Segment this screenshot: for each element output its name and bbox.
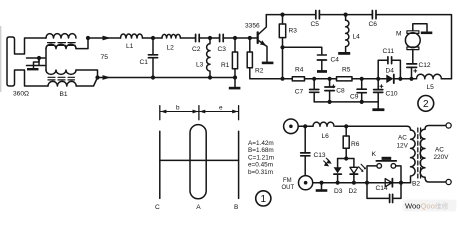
resistor R4 [292,77,304,81]
capacitor C10 + electrolytic [377,79,379,109]
node R6 top [344,124,348,128]
svg-text:12V: 12V [397,142,409,149]
node D4 cathode [398,77,402,81]
wire L5 to right edge [441,78,451,80]
node antenna feed [37,56,41,60]
edge smear [0,26,1,92]
FM OUT upper terminal [284,119,299,134]
svg-text:b=0.31m: b=0.31m [248,169,273,176]
resistor R3 [282,15,284,24]
wire C3 to base [224,37,257,39]
svg-text:R2: R2 [255,68,264,75]
transformer B1 winding W3 (bottom) [48,81,76,86]
svg-text:C=1.21m: C=1.21m [248,154,274,161]
inductor L4 [346,15,349,52]
wire R4 to R5 [305,78,337,80]
LED D3 [337,159,339,168]
wire W3 to bottom node [76,78,97,87]
svg-text:e=0.45m: e=0.45m [248,162,273,169]
dimension line b [160,111,198,113]
capacitor C8 + [329,79,331,102]
antenna feed bridge [27,58,46,66]
wire bottom rail [98,77,236,79]
motor M [405,33,420,48]
wire to L6 [298,125,313,127]
node ground fm [319,181,323,185]
inductor L5 [417,74,442,79]
wire B1 loop top to top node [76,38,88,49]
wire rail to R4 [283,78,293,80]
resistor R1 [234,38,236,52]
capacitor C7 [313,79,315,102]
ground L4 [338,52,350,55]
inductor L6 [313,122,334,126]
svg-text:WooQoo维修: WooQoo维修 [405,201,449,210]
svg-text:R6: R6 [351,141,360,148]
svg-text:B=1.68m: B=1.68m [248,147,274,154]
transformer B1 middle loop top row [46,44,76,48]
node C7 [312,77,316,81]
svg-text:K: K [372,151,377,158]
inductor L2 [162,34,180,38]
bottom wire [313,182,411,184]
svg-text:C9: C9 [350,93,359,100]
node C8 [328,77,332,81]
svg-text:220V: 220V [434,154,450,161]
capacitor C6 [372,11,376,19]
wire top rail to L1 [88,37,121,39]
capacitor C14 loop [367,183,401,199]
capacitor C1 [152,38,154,78]
node bottom 75ohm [95,75,99,79]
top supply rail [266,15,451,79]
svg-text:D3: D3 [334,188,343,195]
inductor L3 [207,38,210,78]
arrow bottom rail [103,75,111,80]
resistor R6 [345,126,347,136]
svg-text:A: A [196,204,201,211]
ground antenna feed [34,58,40,68]
svg-text:C: C [155,204,160,211]
capacitor C4 feedthrough [317,54,326,56]
wire to C4 [283,47,322,54]
LED D2 [353,159,355,168]
boom line [160,159,239,161]
ground motor [421,32,433,35]
transformer B1 winding W1 (top) [46,34,76,38]
svg-text:B2: B2 [412,181,420,188]
node C1 bottom [151,75,155,79]
svg-text:C5: C5 [311,21,320,28]
svg-text:3356: 3356 [245,22,260,29]
svg-text:C4: C4 [331,56,340,63]
capacitor C2 [196,34,200,41]
svg-text:75: 75 [101,54,109,61]
node R2 top [248,36,252,40]
node L4 top [344,13,348,17]
transistor Q1 3356 [257,32,259,43]
svg-text:D2: D2 [349,188,358,195]
svg-text:L4: L4 [353,34,361,41]
wire motor top to ground [413,24,427,32]
bottom bus wire [314,101,378,103]
svg-text:R1: R1 [221,62,230,69]
node C1 top [151,36,155,40]
element B [238,131,240,198]
svg-text:L5: L5 [427,84,435,91]
node D2 bottom [352,181,356,185]
capacitor C9 [361,79,363,102]
FM OUT lower terminal [299,176,313,190]
svg-text:R5: R5 [342,67,351,74]
node main rail R2R3R4 [281,77,285,81]
capacitor C3 [220,34,224,41]
node L3 top [208,36,212,40]
svg-text:AC: AC [435,146,444,153]
svg-text:FM: FM [283,178,292,184]
node C12 motor [409,77,413,81]
svg-text:B: B [234,204,239,211]
node D3 bottom [336,181,340,185]
node L3 bottom [208,75,212,79]
svg-text:R4: R4 [295,67,304,74]
terminal AC bottom [446,179,451,184]
node R1 bottom [233,75,237,79]
ground C10 [372,108,384,111]
svg-text:C2: C2 [192,46,201,53]
node C10 C11 [376,77,380,81]
svg-text:C8: C8 [336,88,345,95]
svg-text:e: e [219,105,223,112]
svg-text:R3: R3 [289,28,298,35]
diode D4 [386,75,393,84]
B1 core dashes [48,43,76,46]
node R1 top [233,36,237,40]
svg-text:1: 1 [261,194,267,205]
capacitor C5 [316,11,320,19]
element C [159,131,161,198]
svg-text:C6: C6 [369,21,378,28]
svg-text:C3: C3 [218,46,227,53]
wire L2 to C2 [180,37,195,39]
node R3 bottom [280,45,284,49]
svg-text:C10: C10 [386,91,398,98]
wire B1 loop bottom to bottom node [76,70,98,78]
ground fm out [321,183,323,189]
wire C2 to L3 node [200,37,219,39]
svg-text:C13: C13 [314,152,326,159]
node K right [399,181,403,185]
node R3 top [280,13,284,17]
capacitor C13 [304,126,306,175]
wire D4 to L5 [394,78,417,80]
svg-text:C12: C12 [419,62,431,69]
watermark [403,200,457,212]
dimension line e [199,111,238,113]
capacitor C11 bypass [378,60,400,79]
node LED split [344,156,348,160]
B2 core [418,128,421,178]
svg-text:OUT: OUT [282,185,295,191]
circled 1 [256,191,271,206]
B1 middle loop left side [45,49,47,70]
svg-text:C7: C7 [295,89,304,96]
ground R1 [234,78,236,87]
svg-text:2: 2 [423,99,429,110]
transformer B2 primary [411,130,416,183]
resistor R5 [337,77,353,81]
node C13 top [303,124,307,128]
B1 lower core dashes [48,77,75,80]
capacitor C12 + [412,50,413,79]
svg-text:L3: L3 [196,62,204,69]
resistor R2 [249,38,251,52]
dimension ticks [160,106,239,120]
node K left [365,181,369,185]
svg-text:M: M [396,30,402,37]
svg-text:AC: AC [398,134,407,141]
svg-text:C1: C1 [140,59,149,66]
svg-text:L2: L2 [167,45,175,52]
svg-text:C11: C11 [383,48,395,55]
svg-text:A=1.42m: A=1.42m [248,140,274,147]
ground emitter [262,62,274,65]
wire L1 to C1 node [143,37,163,39]
inductor L1 [121,34,143,38]
svg-text:B1: B1 [60,91,68,98]
svg-text:L6: L6 [322,133,330,140]
svg-text:360Ω: 360Ω [13,91,29,98]
transformer B2 secondary [420,129,425,177]
element A folded dipole [190,125,206,199]
transformer B1 middle loop bottom row [46,70,76,74]
arrow top rail [103,36,111,41]
wire L6 to B2 [335,126,410,130]
svg-text:b: b [176,105,180,112]
svg-text:D4: D4 [386,68,395,75]
antenna folded dipole 360 ohm [7,37,48,86]
circled 2 [418,96,434,112]
svg-text:C14: C14 [376,185,388,192]
node top 75ohm [86,36,90,40]
wire R5 to D4 [352,78,386,80]
diode D1 [385,179,392,187]
svg-text:L1: L1 [126,43,134,50]
terminal AC top [446,123,451,128]
node C9 [360,77,364,81]
